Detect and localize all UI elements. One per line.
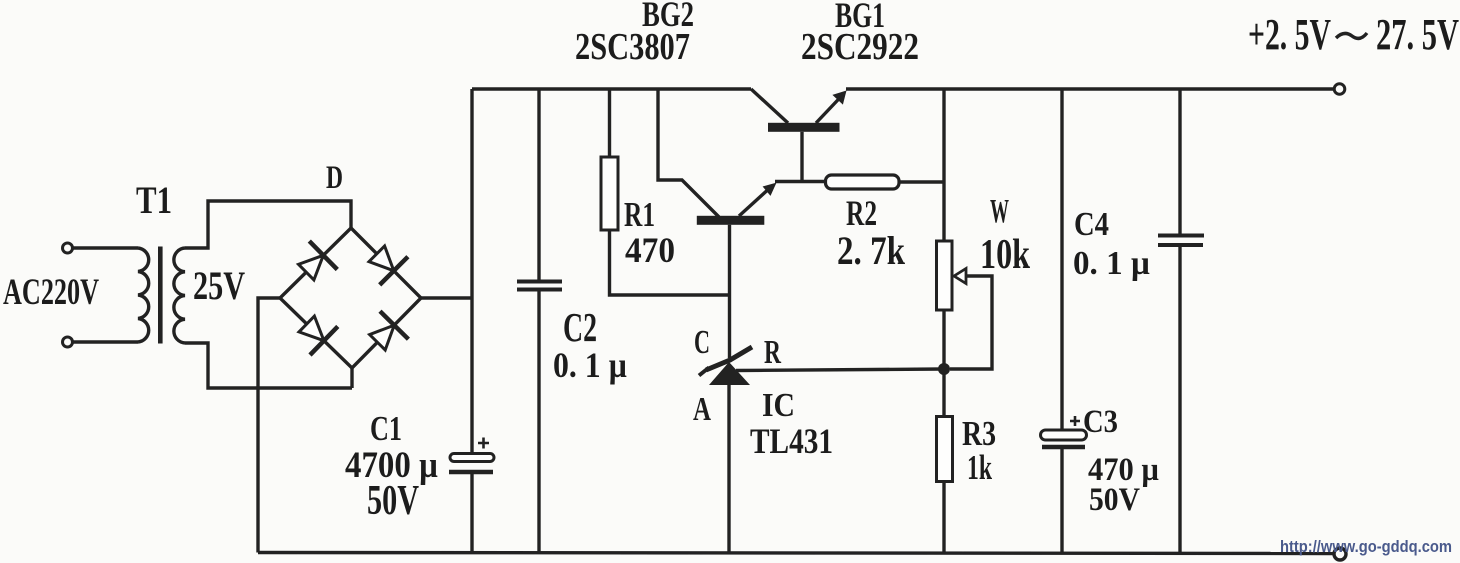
wire top rail left section bbox=[472, 87, 751, 90]
resistor R2 bbox=[826, 175, 900, 189]
wire C3 branch lower bbox=[1060, 449, 1063, 553]
input terminal top bbox=[63, 243, 73, 253]
transformer T1 core bbox=[158, 247, 163, 344]
svg-text:0. 1 µ: 0. 1 µ bbox=[1073, 245, 1150, 282]
wire TL431 ref to divider node bbox=[736, 369, 944, 371]
capacitor C1 bbox=[449, 438, 494, 473]
wire left rail upper bbox=[470, 89, 473, 454]
transistor BG2 bbox=[658, 89, 777, 358]
svg-text:27. 5V: 27. 5V bbox=[1376, 10, 1459, 59]
wire bridge bottom vertex stub bbox=[350, 368, 353, 388]
wire bbox=[73, 246, 138, 249]
resistor R1 bbox=[601, 157, 618, 230]
wire R2 right lead bbox=[899, 180, 944, 183]
capacitor C2 bbox=[517, 282, 562, 290]
svg-text:A: A bbox=[693, 391, 711, 428]
svg-text:10k: 10k bbox=[980, 232, 1030, 278]
svg-text:25V: 25V bbox=[193, 263, 245, 308]
capacitor C4 bbox=[1158, 236, 1204, 246]
svg-text:C: C bbox=[694, 324, 710, 361]
svg-text:IC: IC bbox=[762, 387, 795, 424]
svg-text:TL431: TL431 bbox=[750, 421, 833, 461]
svg-text:470: 470 bbox=[625, 230, 675, 270]
transformer T1 secondary winding bbox=[174, 248, 185, 343]
svg-text:R1: R1 bbox=[624, 195, 655, 234]
capacitor C3 bbox=[1041, 416, 1087, 447]
wire C4 branch lower bbox=[1178, 246, 1181, 553]
diode bottom-right bbox=[370, 311, 409, 350]
wire secondary top to bridge top bbox=[185, 201, 351, 248]
output terminal top bbox=[1334, 84, 1345, 95]
diode bottom-left bbox=[299, 316, 338, 355]
svg-text:0. 1 µ: 0. 1 µ bbox=[553, 345, 627, 385]
wire C3 branch upper bbox=[1060, 89, 1063, 430]
tilde of output voltage range bbox=[1336, 33, 1367, 38]
svg-text:2. 7k: 2. 7k bbox=[837, 228, 906, 273]
wire top rail right section bbox=[846, 87, 1334, 90]
svg-text:1k: 1k bbox=[967, 448, 992, 487]
wire bridge minus to bottom rail bbox=[258, 298, 280, 553]
svg-text:D: D bbox=[326, 160, 343, 196]
svg-text:R2: R2 bbox=[846, 193, 877, 233]
svg-text:http://www.go-gddq.com: http://www.go-gddq.com bbox=[1280, 537, 1452, 556]
svg-text:50V: 50V bbox=[1089, 482, 1140, 518]
potentiometer W body bbox=[937, 241, 953, 310]
wire secondary bottom to bridge bottom bbox=[185, 343, 352, 388]
transistor BG1 bbox=[751, 89, 847, 182]
svg-text:+2. 5V: +2. 5V bbox=[1248, 10, 1331, 59]
svg-text:W: W bbox=[990, 193, 1009, 230]
wire R1 lower to TL431 cathode node bbox=[610, 230, 730, 295]
potentiometer W wiper arrow bbox=[950, 269, 992, 370]
svg-text:T1: T1 bbox=[136, 179, 172, 222]
output terminal bottom bbox=[1334, 548, 1346, 560]
wire R3 bottom bbox=[942, 482, 945, 554]
svg-text:2SC3807: 2SC3807 bbox=[575, 26, 690, 68]
wire R1 branch upper bbox=[608, 89, 611, 157]
resistor R3 bbox=[937, 417, 953, 482]
svg-text:R: R bbox=[764, 334, 781, 371]
wire left rail lower bbox=[470, 473, 473, 553]
svg-text:C4: C4 bbox=[1074, 206, 1109, 243]
wire output rail drop to W bbox=[942, 89, 945, 241]
wire bridge plus to left rail bbox=[421, 296, 472, 299]
svg-text:C2: C2 bbox=[563, 304, 597, 350]
input terminal bottom bbox=[63, 337, 73, 347]
svg-text:2SC2922: 2SC2922 bbox=[801, 26, 919, 68]
svg-text:C1: C1 bbox=[370, 409, 402, 448]
svg-text:50V: 50V bbox=[367, 478, 419, 524]
wire bottom rail bbox=[258, 553, 1334, 554]
bridge rectifier D diamond bbox=[280, 228, 421, 368]
diode top-left bbox=[299, 241, 338, 280]
diode top-right bbox=[369, 246, 408, 285]
wire C4 branch upper bbox=[1178, 89, 1181, 234]
wire W bottom bbox=[942, 310, 945, 417]
svg-text:AC220V: AC220V bbox=[3, 272, 99, 313]
op-amp U1 TL431 shunt regulator bbox=[699, 347, 752, 553]
wire bbox=[73, 340, 138, 343]
svg-text:C3: C3 bbox=[1083, 404, 1118, 440]
transformer T1 primary winding bbox=[138, 248, 149, 342]
wire C2 branch upper bbox=[537, 89, 540, 280]
node junction dot bbox=[938, 363, 950, 375]
wire BG2 emitter node bbox=[775, 180, 826, 183]
wire C2 branch lower bbox=[537, 291, 540, 553]
